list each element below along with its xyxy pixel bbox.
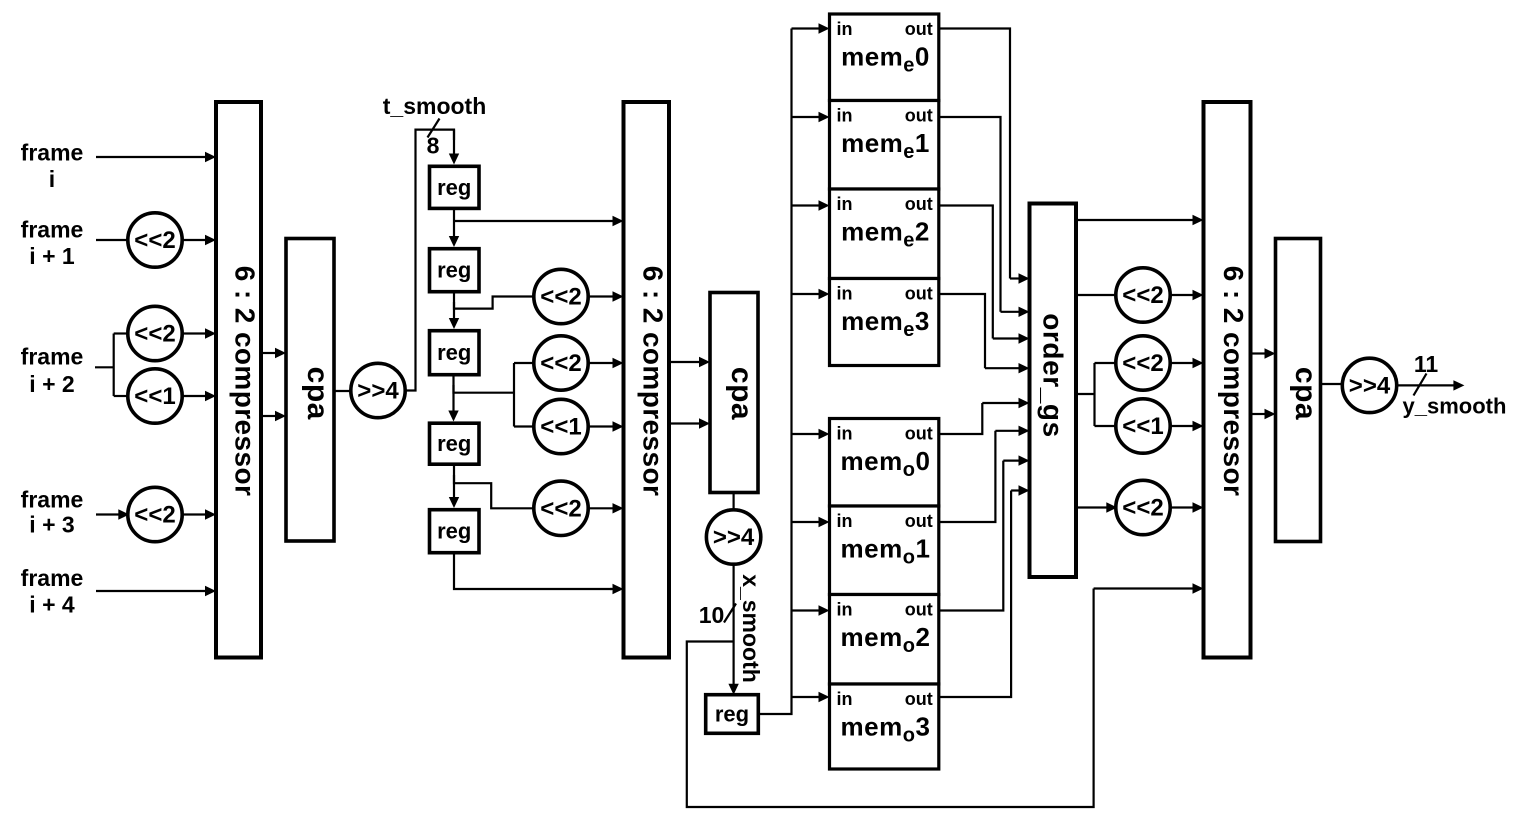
svg-text:<<1: <<1 [540, 414, 581, 441]
svg-text:in: in [837, 600, 853, 620]
svg-text:y_smooth: y_smooth [1403, 394, 1507, 419]
svg-text:meme2: meme2 [841, 217, 930, 252]
svg-text:>>4: >>4 [357, 378, 399, 405]
svg-text:memo2: memo2 [841, 622, 931, 657]
svg-text:i: i [49, 166, 55, 192]
svg-text:frame: frame [21, 140, 84, 166]
svg-text:meme1: meme1 [841, 128, 930, 163]
svg-text:>>4: >>4 [713, 524, 755, 551]
svg-text:out: out [905, 106, 933, 126]
svg-text:<<2: <<2 [1122, 495, 1163, 522]
svg-text:reg: reg [715, 702, 749, 727]
svg-text:frame: frame [21, 344, 84, 370]
svg-text:out: out [905, 689, 933, 709]
svg-text:memo3: memo3 [841, 712, 931, 747]
svg-text:i + 4: i + 4 [29, 592, 75, 618]
svg-text:meme3: meme3 [841, 306, 930, 341]
svg-text:frame: frame [21, 486, 84, 512]
svg-text:t_smooth: t_smooth [383, 93, 487, 119]
svg-text:<<2: <<2 [1122, 282, 1163, 309]
svg-text:cpa: cpa [301, 367, 334, 420]
svg-text:in: in [837, 511, 853, 531]
svg-text:>>4: >>4 [1349, 372, 1391, 399]
svg-text:out: out [905, 19, 933, 39]
svg-text:<<2: <<2 [134, 321, 175, 348]
svg-text:8: 8 [427, 133, 440, 159]
svg-text:reg: reg [437, 431, 471, 456]
svg-text:reg: reg [437, 340, 471, 365]
svg-text:in: in [837, 284, 853, 304]
svg-text:<<2: <<2 [540, 495, 581, 522]
svg-text:<<2: <<2 [540, 350, 581, 377]
svg-text:11: 11 [1414, 351, 1439, 377]
svg-text:in: in [837, 106, 853, 126]
svg-text:frame: frame [21, 565, 84, 591]
svg-text:<<2: <<2 [134, 227, 175, 254]
svg-text:6 : 2 compressor: 6 : 2 compressor [1218, 266, 1249, 497]
svg-text:cpa: cpa [725, 367, 758, 420]
svg-text:out: out [905, 284, 933, 304]
svg-text:memo1: memo1 [841, 534, 931, 569]
svg-text:i + 3: i + 3 [29, 512, 74, 538]
svg-text:out: out [905, 424, 933, 444]
svg-text:i + 2: i + 2 [29, 371, 74, 397]
svg-text:in: in [837, 19, 853, 39]
svg-text:out: out [905, 600, 933, 620]
svg-text:order_gs: order_gs [1037, 313, 1068, 438]
svg-text:i + 1: i + 1 [29, 243, 75, 269]
svg-text:out: out [905, 511, 933, 531]
svg-text:meme0: meme0 [841, 42, 930, 77]
svg-text:reg: reg [437, 258, 471, 283]
svg-text:<<2: <<2 [1122, 350, 1163, 377]
svg-text:reg: reg [437, 175, 471, 200]
svg-text:<<1: <<1 [1122, 413, 1163, 440]
svg-text:x_smooth: x_smooth [738, 574, 764, 683]
svg-text:<<2: <<2 [540, 284, 581, 311]
svg-text:6 : 2 compressor: 6 : 2 compressor [637, 266, 668, 497]
svg-text:in: in [837, 689, 853, 709]
svg-text:cpa: cpa [1289, 367, 1322, 420]
svg-text:memo0: memo0 [841, 446, 931, 481]
svg-text:out: out [905, 194, 933, 214]
svg-text:reg: reg [437, 519, 471, 544]
svg-text:in: in [837, 424, 853, 444]
svg-text:6 : 2 compressor: 6 : 2 compressor [230, 266, 261, 497]
svg-text:frame: frame [21, 217, 84, 243]
svg-text:in: in [837, 194, 853, 214]
svg-text:<<1: <<1 [134, 383, 175, 410]
svg-text:10: 10 [699, 602, 725, 628]
svg-text:<<2: <<2 [134, 502, 175, 529]
